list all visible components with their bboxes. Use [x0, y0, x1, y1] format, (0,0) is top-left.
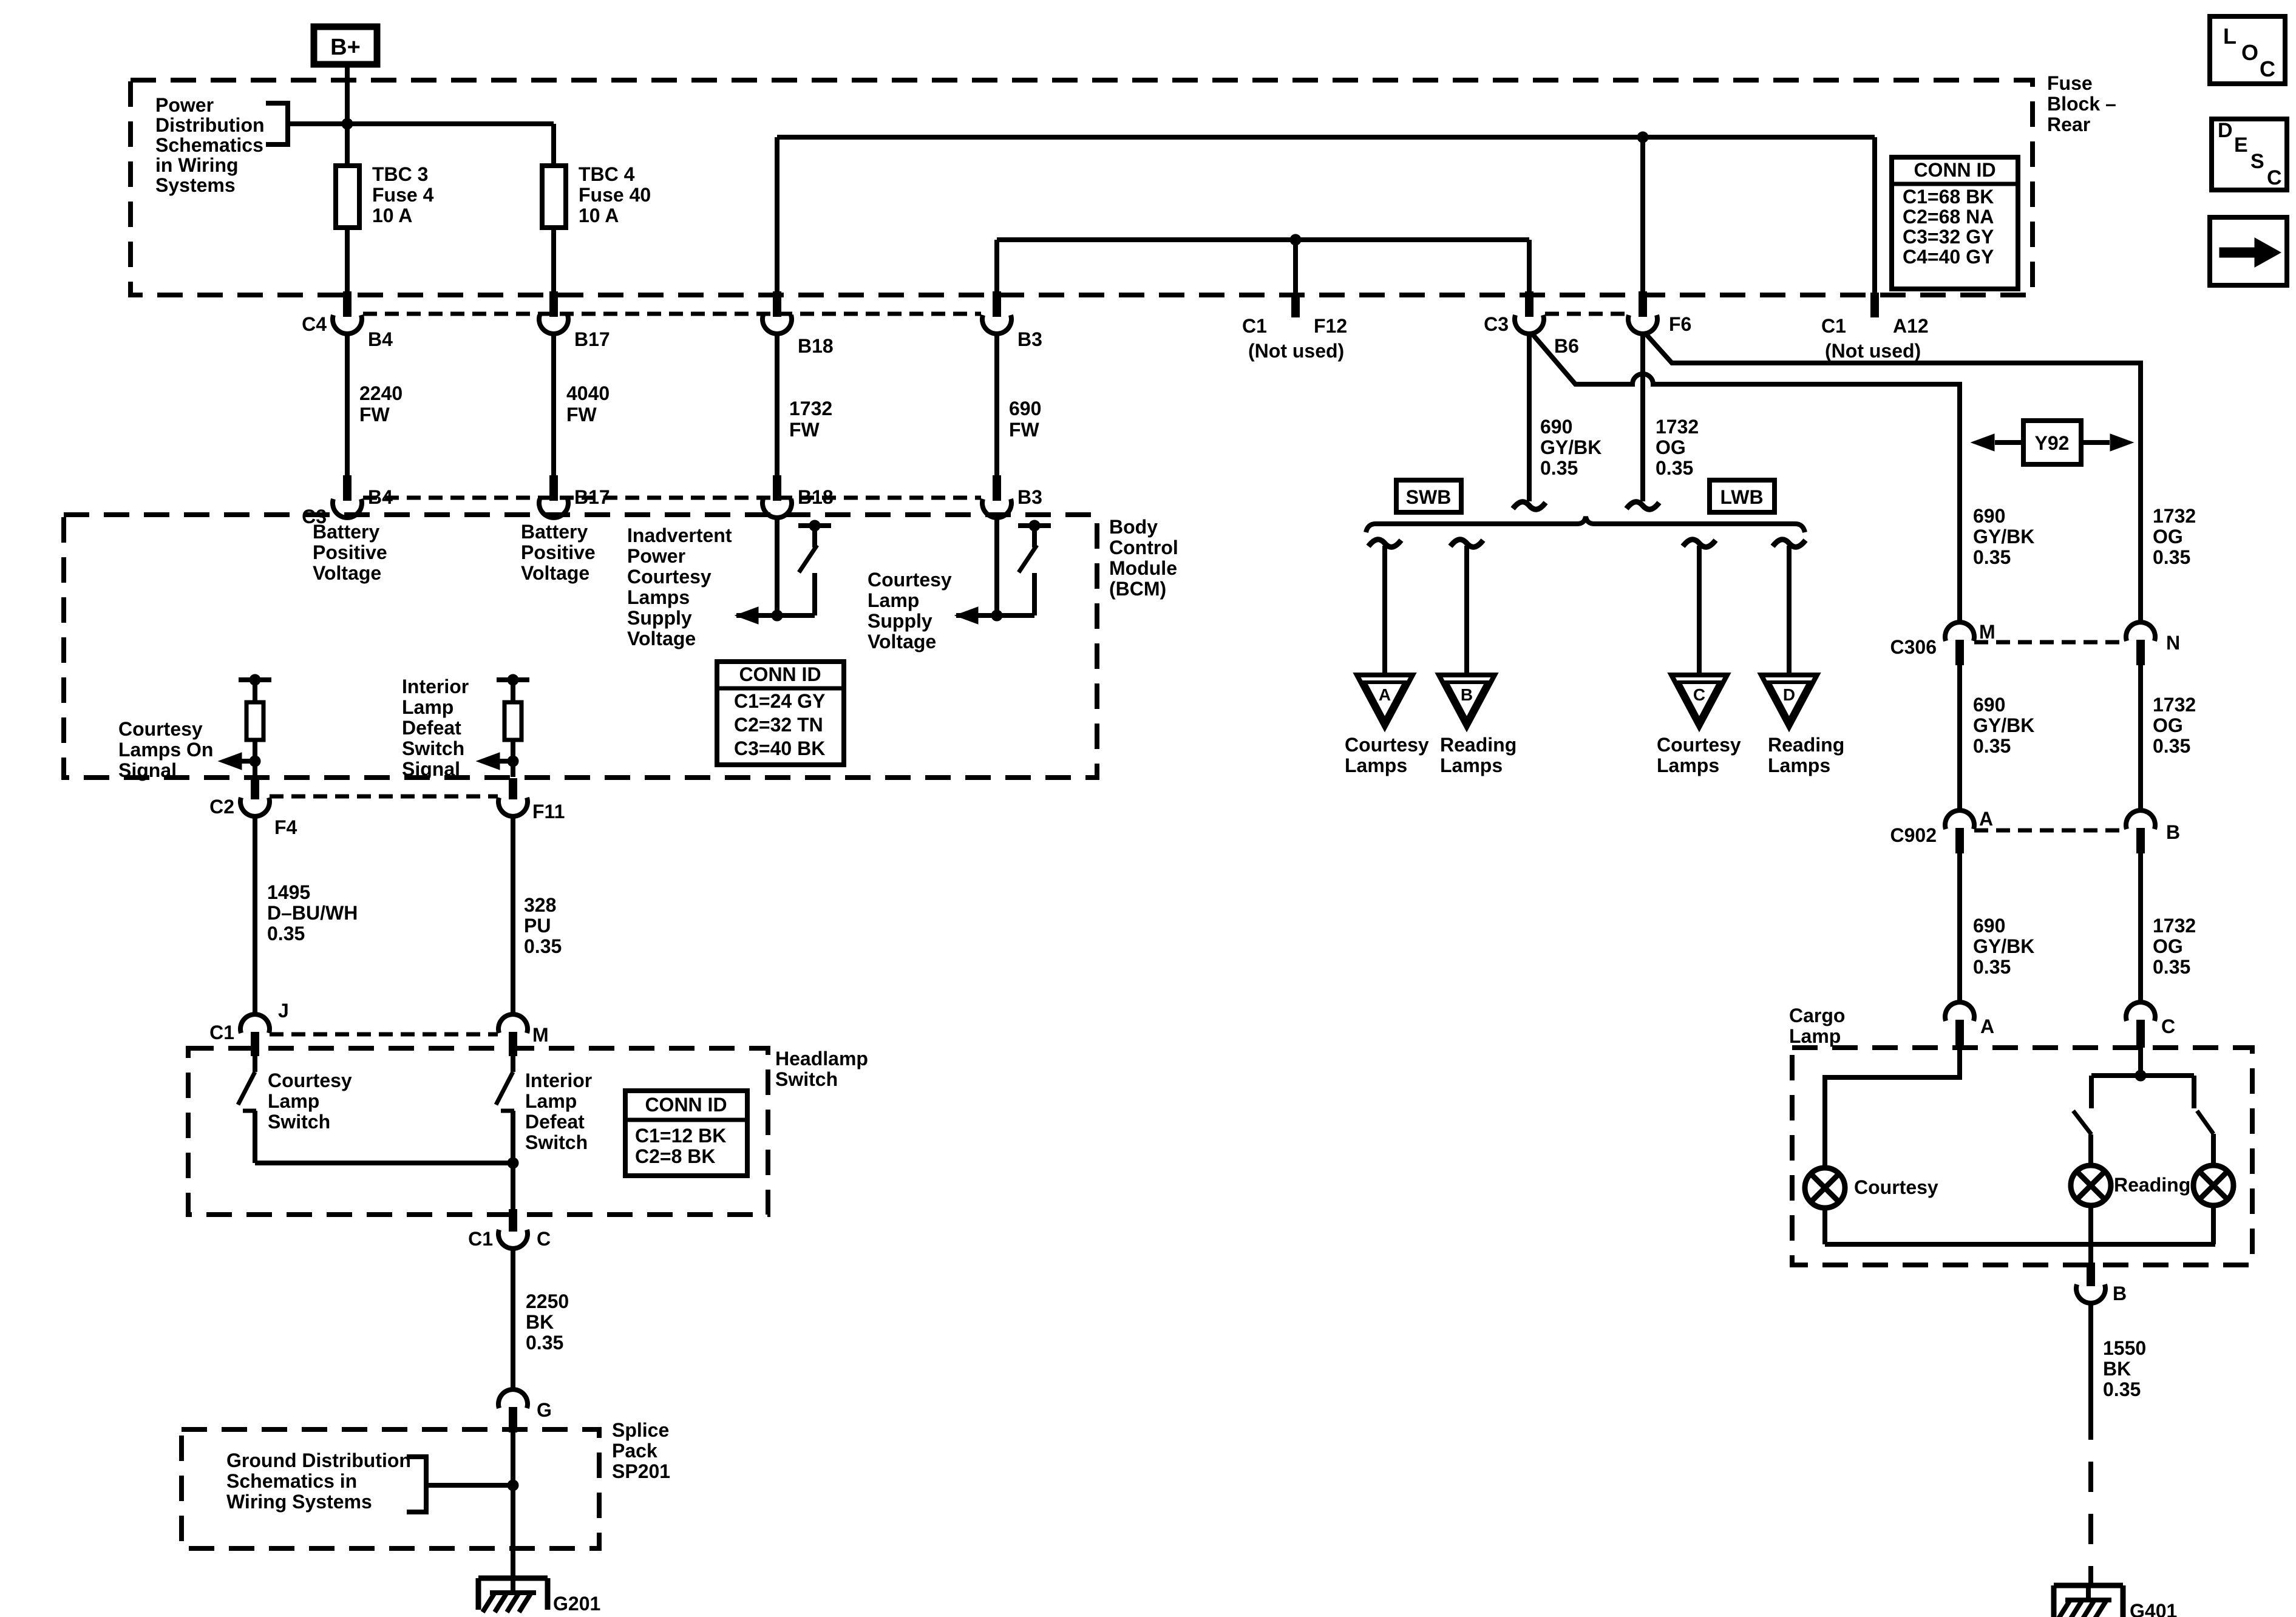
- resistor interior lamp defeat switch signal with arrow: [497, 674, 529, 777]
- svg-text:Lamps: Lamps: [1768, 754, 1830, 776]
- svg-text:L: L: [2223, 24, 2237, 49]
- connector pin G splice pack: [498, 1389, 528, 1432]
- svg-text:Headlamp: Headlamp: [775, 1048, 868, 1070]
- connector triangle D: [1761, 675, 1817, 727]
- svg-text:Splice: Splice: [612, 1419, 669, 1441]
- callout LWB: [1710, 480, 1775, 512]
- svg-text:OG: OG: [2153, 935, 2183, 957]
- svg-text:G201: G201: [553, 1593, 600, 1615]
- svg-text:690: 690: [1973, 915, 2005, 937]
- svg-text:Lamp: Lamp: [1789, 1025, 1841, 1047]
- connector C1 pin J: [240, 1014, 270, 1056]
- svg-text:Inadvertent: Inadvertent: [627, 524, 732, 546]
- svg-text:C3: C3: [1484, 313, 1509, 335]
- svg-text:Power: Power: [155, 94, 214, 116]
- svg-text:0.35: 0.35: [1973, 546, 2011, 568]
- node junction F12 stub: [1290, 234, 1301, 245]
- svg-text:Wiring Systems: Wiring Systems: [226, 1491, 372, 1513]
- svg-text:Signal: Signal: [402, 758, 460, 780]
- svg-text:C1: C1: [209, 1022, 234, 1043]
- svg-text:690: 690: [1540, 416, 1572, 438]
- svg-text:4040: 4040: [566, 382, 610, 404]
- svg-text:0.35: 0.35: [2103, 1378, 2141, 1400]
- connector C306 pin M: [1945, 622, 1974, 665]
- svg-text:Courtesy: Courtesy: [868, 569, 952, 591]
- splice pack SP201 dashed box: [182, 1429, 599, 1548]
- connector half 1732 to SWB/LWB: [1626, 502, 1659, 509]
- svg-text:1732: 1732: [789, 398, 832, 419]
- svg-text:C2=32 TN: C2=32 TN: [734, 714, 823, 736]
- wire 1550 BK 0.35: [2088, 1303, 2093, 1440]
- svg-text:C: C: [537, 1228, 551, 1250]
- switch courtesy lamp switch: [238, 1056, 256, 1163]
- node junction at B+ feed: [342, 118, 353, 129]
- node junction cargo C: [2135, 1070, 2146, 1081]
- wire bracket to splice: [426, 1483, 513, 1488]
- connector line C3-F6: [1545, 312, 1627, 316]
- wire switch outputs joined: [255, 1161, 513, 1165]
- svg-text:O: O: [2241, 40, 2258, 65]
- svg-text:CONN ID: CONN ID: [645, 1094, 727, 1116]
- svg-text:G: G: [537, 1399, 552, 1421]
- svg-text:10 A: 10 A: [579, 205, 619, 226]
- svg-text:F4: F4: [274, 816, 297, 838]
- wire 690 GY/BK C306 to C902: [1957, 665, 1962, 812]
- wire to triangle D: [1787, 546, 1792, 675]
- brace harness split: [1366, 517, 1805, 532]
- svg-text:Power: Power: [627, 545, 685, 567]
- svg-text:SP201: SP201: [612, 1460, 670, 1482]
- svg-text:M: M: [532, 1024, 549, 1046]
- svg-text:F6: F6: [1669, 313, 1691, 335]
- svg-text:Signal: Signal: [118, 759, 177, 781]
- connector C4 pin B3: [982, 291, 1011, 334]
- svg-text:0.35: 0.35: [2153, 956, 2190, 978]
- wire B+ jumper to TBC4: [288, 121, 554, 126]
- svg-text:Voltage: Voltage: [521, 562, 589, 584]
- svg-text:Supply: Supply: [627, 607, 692, 629]
- svg-text:OG: OG: [1656, 436, 1686, 458]
- svg-text:0.35: 0.35: [1656, 457, 1693, 479]
- svg-text:C1=68 BK: C1=68 BK: [1903, 186, 1994, 208]
- svg-text:C2=68 NA: C2=68 NA: [1903, 206, 1994, 228]
- svg-text:10 A: 10 A: [372, 205, 412, 226]
- bracket for power distribution reference: [266, 103, 288, 144]
- svg-text:OG: OG: [2153, 526, 2183, 547]
- connector Y92 with arrows: [1995, 421, 2110, 464]
- svg-text:Lamps: Lamps: [1657, 754, 1719, 776]
- svg-text:B: B: [1461, 685, 1473, 704]
- svg-text:1732: 1732: [2153, 505, 2196, 527]
- svg-text:C902: C902: [1890, 824, 1937, 846]
- svg-text:1495: 1495: [267, 881, 310, 903]
- svg-text:Courtesy: Courtesy: [118, 718, 203, 740]
- svg-text:B17: B17: [574, 486, 610, 508]
- connector line C902: [1974, 829, 2126, 833]
- svg-text:E: E: [2234, 134, 2248, 157]
- switch interior lamp defeat switch: [496, 1056, 514, 1163]
- svg-text:A: A: [1379, 685, 1391, 704]
- wire B+ down: [345, 64, 350, 166]
- bracket ground distribution reference: [407, 1457, 426, 1512]
- svg-text:GY/BK: GY/BK: [1973, 935, 2034, 957]
- svg-text:690: 690: [1973, 505, 2005, 527]
- svg-text:Module: Module: [1109, 557, 1177, 579]
- connector cargo pin A: [1945, 1002, 1974, 1048]
- svg-text:1732: 1732: [2153, 915, 2196, 937]
- svg-text:B+: B+: [330, 35, 361, 60]
- svg-text:B4: B4: [368, 328, 393, 350]
- switch BCM courtesy lamp supply (B3) with arrow: [956, 517, 1051, 621]
- svg-text:B6: B6: [1554, 335, 1579, 357]
- svg-text:B3: B3: [1017, 328, 1042, 350]
- svg-text:C3=40 BK: C3=40 BK: [734, 737, 825, 759]
- svg-text:Y92: Y92: [2035, 432, 2070, 454]
- node junction F6 feed: [1637, 132, 1648, 143]
- svg-text:0.35: 0.35: [524, 935, 562, 957]
- svg-text:2240: 2240: [359, 382, 402, 404]
- lamp reading left: [2071, 1165, 2111, 1205]
- svg-text:Battery: Battery: [521, 521, 588, 543]
- svg-text:Defeat: Defeat: [525, 1111, 585, 1133]
- svg-text:M: M: [1979, 621, 1995, 643]
- svg-text:Distribution: Distribution: [155, 114, 265, 136]
- connector line C2 row: [270, 795, 498, 799]
- svg-text:Lamp: Lamp: [868, 589, 919, 611]
- svg-text:C: C: [1693, 685, 1705, 704]
- svg-text:B17: B17: [574, 328, 610, 350]
- svg-text:C: C: [2161, 1015, 2175, 1037]
- CONN ID table headlamp switch: [625, 1091, 747, 1176]
- svg-text:C306: C306: [1890, 636, 1937, 658]
- wire switch feed bus: [2091, 1073, 2194, 1078]
- svg-text:D: D: [2218, 119, 2233, 142]
- connector C306 pin N: [2126, 622, 2155, 665]
- svg-text:Reading: Reading: [1768, 734, 1844, 756]
- wire courtesy lamp to bottom: [1822, 1208, 1827, 1244]
- connector cargo pin C: [2126, 1002, 2155, 1048]
- wire 1732 OG down from F6: [1640, 333, 1645, 501]
- node junction splice SP201: [508, 1480, 518, 1491]
- svg-text:0.35: 0.35: [526, 1332, 563, 1354]
- svg-text:C: C: [2260, 56, 2275, 81]
- connector C3 pin B6: [1515, 291, 1544, 334]
- svg-text:C2=8 BK: C2=8 BK: [635, 1145, 716, 1167]
- svg-text:Positive: Positive: [521, 541, 596, 563]
- connector pin F6: [1628, 291, 1657, 334]
- svg-text:TBC 4: TBC 4: [579, 163, 635, 185]
- fuse TBC 3 Fuse 4 10 A: [336, 166, 359, 228]
- svg-text:B3: B3: [1017, 486, 1042, 508]
- svg-text:C4: C4: [302, 313, 327, 335]
- wire 328 PU 0.35: [511, 816, 515, 1016]
- connector C902 pin A: [1945, 810, 1974, 853]
- svg-text:GY/BK: GY/BK: [1540, 436, 1601, 458]
- icon arrow next page: [2210, 217, 2287, 285]
- svg-text:0.35: 0.35: [2153, 546, 2190, 568]
- svg-text:Lamps: Lamps: [1345, 754, 1407, 776]
- ground G201: [478, 1578, 548, 1612]
- svg-text:Courtesy: Courtesy: [1657, 734, 1741, 756]
- svg-text:SWB: SWB: [1406, 486, 1452, 508]
- wire down to F6: [1640, 137, 1645, 293]
- connector half lamp feed C: [1683, 540, 1716, 547]
- wire fuse TBC4 to connector C4-B17: [551, 228, 556, 293]
- svg-text:C: C: [2267, 166, 2282, 189]
- connector C3 BCM pin B4: [333, 475, 362, 518]
- svg-text:B18: B18: [798, 335, 834, 357]
- lamp courtesy cargo: [1805, 1168, 1845, 1208]
- svg-text:Voltage: Voltage: [313, 562, 381, 584]
- wire 1732 FW: [775, 333, 779, 475]
- svg-text:B18: B18: [798, 486, 834, 508]
- svg-text:FW: FW: [359, 404, 390, 425]
- svg-text:Reading: Reading: [2114, 1174, 2190, 1196]
- svg-text:Ground Distribution: Ground Distribution: [226, 1449, 411, 1471]
- svg-text:C1=24 GY: C1=24 GY: [734, 690, 825, 712]
- wire 1495 D-BU/WH 0.35: [253, 816, 257, 1016]
- svg-text:C1: C1: [1242, 315, 1267, 337]
- icon LOC: [2210, 16, 2285, 84]
- svg-text:C1: C1: [1821, 315, 1846, 337]
- connector C3 BCM pin B3: [982, 475, 1011, 518]
- connector triangle C: [1671, 675, 1727, 727]
- svg-text:690: 690: [1973, 694, 2005, 716]
- wire fuse block feed B18 to A12: [777, 135, 1875, 140]
- svg-text:Voltage: Voltage: [627, 628, 696, 649]
- svg-text:FW: FW: [789, 419, 820, 441]
- fuse block - rear dashed box: [131, 80, 2033, 295]
- connector half lamp feed A: [1368, 540, 1401, 547]
- svg-text:Lamp: Lamp: [402, 696, 453, 718]
- connector C1 pin M: [498, 1014, 528, 1056]
- svg-text:Switch: Switch: [775, 1068, 838, 1090]
- svg-text:Courtesy: Courtesy: [627, 566, 712, 588]
- svg-text:GY/BK: GY/BK: [1973, 526, 2034, 547]
- connector half lamp feed D: [1773, 540, 1805, 547]
- svg-text:Pack: Pack: [612, 1440, 657, 1462]
- svg-text:0.35: 0.35: [1540, 457, 1578, 479]
- svg-text:GY/BK: GY/BK: [1973, 714, 2034, 736]
- wire 690 FW: [994, 333, 999, 475]
- svg-text:0.35: 0.35: [267, 923, 305, 944]
- wire to triangle B: [1464, 546, 1469, 675]
- svg-text:A: A: [1979, 808, 1993, 830]
- svg-text:BK: BK: [526, 1311, 554, 1333]
- resistor courtesy lamps on signal with arrow: [239, 674, 271, 777]
- svg-text:D–BU/WH: D–BU/WH: [267, 902, 358, 924]
- connector C1 pin C: [498, 1209, 528, 1249]
- svg-text:Courtesy: Courtesy: [1345, 734, 1429, 756]
- wire jumper down to TBC4: [551, 124, 556, 166]
- svg-text:Courtesy: Courtesy: [1854, 1176, 1938, 1198]
- connector line C4 row: [363, 312, 981, 316]
- svg-text:Control: Control: [1109, 537, 1178, 558]
- svg-text:(BCM): (BCM): [1109, 578, 1166, 600]
- svg-text:B: B: [2166, 821, 2180, 843]
- svg-text:Supply: Supply: [868, 610, 932, 632]
- svg-text:OG: OG: [2153, 714, 2183, 736]
- connector C3 BCM pin B17: [539, 475, 568, 518]
- wire 4040 FW: [551, 333, 556, 475]
- svg-text:Cargo: Cargo: [1789, 1005, 1845, 1026]
- connector half lamp feed B: [1450, 540, 1483, 547]
- svg-text:N: N: [2166, 632, 2180, 654]
- wire down to B18: [775, 137, 779, 293]
- svg-text:C2: C2: [209, 796, 234, 818]
- connector cargo pin B: [2076, 1263, 2105, 1303]
- connector C4 pin B17: [539, 291, 568, 334]
- svg-text:Systems: Systems: [155, 174, 236, 196]
- svg-text:CONN ID: CONN ID: [1914, 159, 1995, 181]
- svg-text:Rear: Rear: [2047, 114, 2090, 135]
- wire 690 GY/BK down from C3-B6: [1527, 333, 1532, 501]
- CONN ID table fuse block: [1892, 157, 2018, 289]
- svg-text:PU: PU: [524, 915, 551, 937]
- fuse TBC 4 Fuse 40 10 A: [542, 166, 566, 228]
- svg-text:A12: A12: [1893, 315, 1929, 337]
- wire to C1-C: [511, 1163, 515, 1209]
- headlamp switch dashed box: [188, 1048, 768, 1215]
- svg-text:TBC 3: TBC 3: [372, 163, 428, 185]
- svg-text:FW: FW: [566, 404, 597, 425]
- wire 2250 BK 0.35: [511, 1248, 515, 1391]
- svg-text:328: 328: [524, 894, 556, 916]
- svg-text:Schematics: Schematics: [155, 134, 263, 156]
- connector half 690 to SWB/LWB: [1513, 502, 1546, 509]
- svg-text:Lamps: Lamps: [1440, 754, 1503, 776]
- pin A12: [1870, 293, 1879, 317]
- svg-text:Interior: Interior: [402, 676, 469, 697]
- wire to triangle A: [1382, 546, 1387, 675]
- svg-text:0.35: 0.35: [1973, 956, 2011, 978]
- svg-text:D: D: [1783, 685, 1795, 704]
- wire F6 branch to C306 N: [1645, 333, 2141, 624]
- callout SWB: [1396, 480, 1461, 512]
- svg-text:C1=12 BK: C1=12 BK: [635, 1125, 726, 1147]
- wire splice to ground: [511, 1432, 515, 1578]
- svg-text:F11: F11: [532, 801, 565, 822]
- svg-text:Voltage: Voltage: [868, 631, 936, 653]
- connector C2 pin F4: [240, 778, 270, 816]
- svg-text:Fuse 40: Fuse 40: [579, 184, 651, 206]
- svg-text:C3=32 GY: C3=32 GY: [1903, 226, 1994, 248]
- svg-text:Body: Body: [1109, 516, 1158, 538]
- switch BCM inadvertent power (B18) with arrow: [736, 517, 831, 621]
- svg-text:Reading: Reading: [1440, 734, 1517, 756]
- svg-text:Schematics in: Schematics in: [226, 1470, 357, 1492]
- wire fuse block feed B3 to C3: [997, 237, 1529, 242]
- svg-text:1550: 1550: [2103, 1337, 2146, 1359]
- connector line C306: [1974, 640, 2126, 645]
- connector C4 pin B4: [333, 291, 362, 334]
- svg-text:Courtesy: Courtesy: [268, 1070, 352, 1091]
- svg-text:BK: BK: [2103, 1358, 2131, 1380]
- svg-text:Fuse 4: Fuse 4: [372, 184, 434, 206]
- svg-text:1732: 1732: [1656, 416, 1699, 438]
- svg-text:Switch: Switch: [268, 1111, 330, 1133]
- switch cargo reading left: [2073, 1076, 2091, 1165]
- svg-text:0.35: 0.35: [2153, 735, 2190, 757]
- svg-text:A: A: [1980, 1015, 1994, 1037]
- lamp reading right: [2193, 1165, 2233, 1205]
- svg-text:C1: C1: [468, 1228, 493, 1250]
- svg-text:FW: FW: [1009, 419, 1040, 441]
- svg-text:Interior: Interior: [525, 1070, 592, 1091]
- connector triangle A: [1357, 675, 1413, 727]
- cargo lamp dashed box: [1792, 1048, 2252, 1265]
- svg-text:Block –: Block –: [2047, 93, 2116, 115]
- power symbol B+: [314, 27, 377, 64]
- wire B6 branch to C306 M: [1532, 333, 1960, 624]
- switch cargo reading right: [2194, 1076, 2213, 1165]
- svg-text:J: J: [278, 1000, 289, 1022]
- wire down to C3-B6: [1527, 240, 1532, 293]
- pin F12: [1291, 293, 1300, 317]
- wire stub A12 (not used): [1872, 137, 1877, 293]
- connector C902 pin B: [2126, 810, 2155, 853]
- svg-text:Lamp: Lamp: [268, 1090, 319, 1112]
- svg-text:G401: G401: [2130, 1600, 2177, 1617]
- svg-text:Lamps On: Lamps On: [118, 739, 213, 761]
- svg-text:0.35: 0.35: [1973, 735, 2011, 757]
- connector line C1 row headlamp: [270, 1032, 498, 1037]
- svg-text:Switch: Switch: [402, 737, 464, 759]
- svg-text:690: 690: [1009, 398, 1041, 419]
- svg-text:1732: 1732: [2153, 694, 2196, 716]
- svg-text:Battery: Battery: [313, 521, 379, 543]
- wire C into switches: [2138, 1048, 2143, 1076]
- node junction headlamp switch output: [508, 1158, 518, 1168]
- body control module BCM dashed box: [64, 515, 1097, 778]
- svg-text:Defeat: Defeat: [402, 717, 461, 739]
- svg-text:(Not used): (Not used): [1248, 340, 1344, 362]
- svg-text:in Wiring: in Wiring: [155, 154, 239, 176]
- wire to triangle C: [1697, 546, 1702, 675]
- svg-text:2250: 2250: [526, 1290, 569, 1312]
- ground G401: [2054, 1585, 2123, 1617]
- wire A to courtesy lamp: [1825, 1048, 1960, 1168]
- wire down to B3: [994, 240, 999, 293]
- svg-text:LWB: LWB: [1720, 486, 1763, 508]
- svg-text:Fuse: Fuse: [2047, 72, 2093, 94]
- svg-text:Switch: Switch: [525, 1131, 588, 1153]
- svg-text:C4=40 GY: C4=40 GY: [1903, 246, 1994, 268]
- wire bottom bus: [1825, 1242, 2215, 1247]
- svg-text:B4: B4: [368, 486, 393, 508]
- wire lamps to bottom bus: [2088, 1205, 2093, 1263]
- wire stub F12 (not used): [1293, 240, 1298, 293]
- connector C4 pin B18: [763, 291, 792, 334]
- connector C3 BCM pin B18: [763, 475, 792, 518]
- svg-text:(Not used): (Not used): [1825, 340, 1921, 362]
- svg-text:Positive: Positive: [313, 541, 387, 563]
- svg-text:Lamp: Lamp: [525, 1090, 577, 1112]
- svg-text:F12: F12: [1314, 315, 1347, 337]
- wire 1732 OG C306 to C902: [2138, 665, 2143, 812]
- svg-text:B: B: [2113, 1283, 2127, 1304]
- svg-text:S: S: [2250, 150, 2264, 173]
- wire fuse TBC3 to connector C4-B4: [345, 228, 350, 293]
- wire 690 GY/BK C902 to cargo lamp: [1957, 853, 1962, 1004]
- connector line C3 row BCM: [363, 496, 981, 500]
- wire 1732 OG C902 to cargo lamp: [2138, 853, 2143, 1004]
- icon DESC: [2212, 119, 2287, 190]
- svg-text:CONN ID: CONN ID: [739, 663, 821, 685]
- svg-text:Lamps: Lamps: [627, 586, 690, 608]
- CONN ID table BCM: [717, 662, 844, 765]
- connector triangle B: [1439, 675, 1495, 727]
